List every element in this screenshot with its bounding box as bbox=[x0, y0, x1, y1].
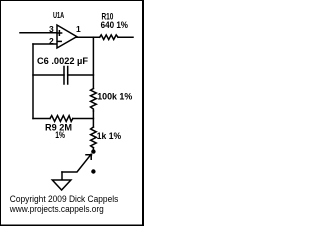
wire R9 right lead bbox=[73, 118, 94, 120]
resistor 100k zigzag bbox=[91, 89, 97, 112]
border frame bbox=[0, 0, 144, 226]
op-amp minus input mark bbox=[57, 40, 61, 42]
wire 1k bottom lead bbox=[92, 148, 94, 151]
wire cap right bbox=[68, 74, 94, 76]
node dot B bbox=[91, 169, 95, 173]
wire pin2 input bbox=[33, 43, 57, 45]
svg-text:www.projects.cappels.org: www.projects.cappels.org bbox=[9, 204, 104, 214]
wire pin3 input bbox=[20, 32, 57, 34]
resistor R9 zigzag bbox=[50, 116, 73, 122]
resistor 1k zigzag bbox=[91, 127, 97, 148]
wire op-amp output bbox=[77, 36, 100, 38]
svg-text:1%: 1% bbox=[55, 130, 65, 140]
svg-text:Copyright 2009 Dick Cappels: Copyright 2009 Dick Cappels bbox=[10, 194, 119, 204]
svg-text:640 1%: 640 1% bbox=[101, 20, 128, 30]
junction dot node A bbox=[91, 149, 95, 153]
op-amp plus input mark bbox=[57, 31, 61, 35]
svg-text:1k 1%: 1k 1% bbox=[97, 131, 121, 141]
wire R10 right lead bbox=[118, 36, 133, 38]
wire output drop to right rail bbox=[92, 37, 94, 88]
ground symbol bbox=[52, 180, 71, 190]
wire R9 left lead bbox=[33, 118, 50, 120]
wiper arrow line bbox=[62, 155, 90, 172]
svg-text:C6 .0022 µF: C6 .0022 µF bbox=[37, 56, 89, 66]
wire cap left bbox=[33, 74, 64, 76]
capacitor C6 plates bbox=[64, 67, 68, 85]
ground stub wire bbox=[61, 172, 63, 180]
wire rail middle bbox=[92, 111, 94, 127]
svg-text:3: 3 bbox=[49, 24, 54, 34]
svg-text:1: 1 bbox=[76, 24, 81, 34]
svg-text:U1A: U1A bbox=[53, 10, 64, 20]
op-amp U1A triangle bbox=[57, 25, 77, 48]
resistor R10 zigzag bbox=[100, 35, 118, 40]
arrowhead bbox=[86, 154, 92, 159]
svg-text:100k 1%: 100k 1% bbox=[97, 92, 132, 102]
wire feedback vertical bbox=[32, 44, 34, 119]
svg-text:2: 2 bbox=[49, 36, 54, 46]
